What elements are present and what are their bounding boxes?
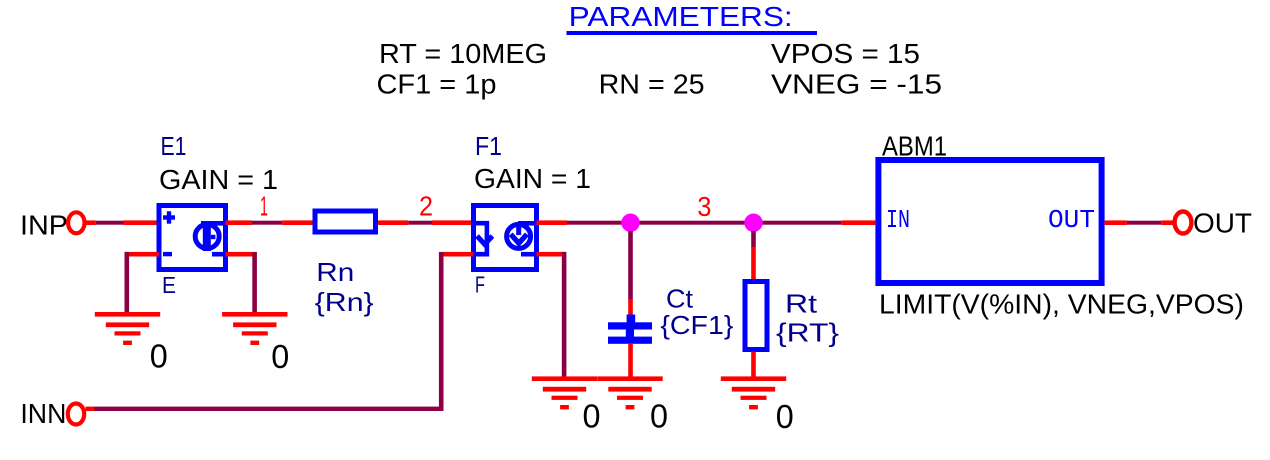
- VCVS E1 box: [159, 206, 226, 270]
- wire node3 to Ct: [628, 231, 633, 300]
- pin stub F1 in+: [432, 220, 471, 225]
- F1 source circle: [507, 224, 531, 248]
- F1 arrow shaft: [516, 223, 521, 235]
- ABM1 expression: [879, 289, 1244, 320]
- param text RT = 10MEG: [379, 38, 547, 69]
- svg-text:VPOS = 15: VPOS = 15: [771, 38, 920, 69]
- wire E1 out- to ground: [252, 252, 257, 314]
- wire INN riser: [439, 252, 444, 411]
- pin stub Rn right: [378, 220, 408, 225]
- svg-text:{CF1}: {CF1}: [660, 310, 733, 340]
- svg-text:RN = 25: RN = 25: [599, 69, 705, 100]
- underline of PARAMETERS: [567, 31, 818, 35]
- ABM1 pin label OUT: [1048, 205, 1095, 235]
- E1 plus sign: [163, 211, 175, 223]
- ground below Ct: [597, 376, 662, 409]
- F1 pin name F: [475, 272, 485, 298]
- resistor Rn label: [316, 257, 354, 287]
- svg-text:OUT: OUT: [1193, 208, 1252, 239]
- svg-text:2: 2: [419, 190, 433, 221]
- pin stub ABM1 in: [842, 220, 876, 225]
- E1 arrow bar: [203, 221, 211, 251]
- E1 label: [161, 131, 187, 161]
- E1 source circle: [195, 224, 219, 248]
- svg-text:0: 0: [650, 397, 668, 434]
- CCCS F1 box: [474, 206, 537, 270]
- pin stub F1 out+: [537, 220, 568, 225]
- param text VNEG = -15: [771, 69, 942, 100]
- wire node 3 mid: [745, 221, 842, 225]
- port label INP: [20, 210, 68, 241]
- resistor Rn value {Rn}: [315, 287, 374, 317]
- E1 gain label: [159, 164, 278, 195]
- svg-text:LIMIT(V(%IN), VNEG,VPOS): LIMIT(V(%IN), VNEG,VPOS): [879, 289, 1244, 320]
- F1 label: [475, 131, 502, 161]
- E1 internal top link: [201, 221, 228, 226]
- svg-text:0: 0: [271, 338, 289, 375]
- wire node 2: [408, 221, 432, 225]
- E1 minus sign: [163, 252, 172, 256]
- capacitor Ct top plate: [608, 322, 652, 329]
- wire F1 out- to ground: [562, 252, 567, 379]
- svg-text:VNEG = -15: VNEG = -15: [771, 69, 942, 100]
- ground 0 label E1 right: [271, 338, 289, 375]
- E1 pin name E: [162, 272, 176, 298]
- resistor Rn body: [315, 211, 376, 232]
- svg-text:Rn: Rn: [316, 257, 354, 287]
- pin stub Rn left: [282, 220, 312, 225]
- ground below F1: [532, 376, 597, 409]
- capacitor Ct bottom plate: [608, 337, 652, 344]
- junction dot node 3 right: [744, 214, 762, 232]
- node 1 label: [260, 191, 268, 222]
- wire node 3 left: [567, 221, 745, 225]
- svg-text:IN: IN: [886, 205, 910, 235]
- svg-text:F: F: [475, 272, 485, 298]
- svg-text:{RT}: {RT}: [776, 318, 839, 348]
- capacitor Ct top lead: [627, 315, 636, 324]
- svg-text:{Rn}: {Rn}: [315, 287, 374, 317]
- capacitor Ct mid stub: [626, 330, 634, 337]
- param text VPOS = 15: [771, 38, 920, 69]
- pin stub Rt top: [751, 247, 756, 280]
- F1 internal top link: [518, 221, 539, 226]
- svg-text:Rt: Rt: [785, 289, 818, 319]
- svg-text:F1: F1: [475, 131, 502, 161]
- svg-text:0: 0: [150, 338, 168, 375]
- ground below E1 left: [95, 312, 160, 345]
- svg-text:0: 0: [776, 398, 794, 435]
- port INP circle: [68, 212, 84, 233]
- node 3 label: [697, 191, 711, 222]
- svg-text:PARAMETERS:: PARAMETERS:: [569, 1, 793, 32]
- pin stub E1 out-: [226, 252, 253, 257]
- pin stub ABM1 out: [1105, 220, 1127, 225]
- svg-text:E: E: [162, 272, 176, 298]
- ground 0 label Ct: [650, 397, 668, 434]
- F1 gain label: [474, 163, 591, 194]
- pin stub INP port: [86, 220, 96, 225]
- resistor Rt label: [785, 289, 818, 319]
- port label INN: [20, 398, 66, 429]
- port INN circle: [68, 404, 84, 425]
- text PARAMETERS heading: [569, 1, 793, 32]
- junction dot node 3 left: [621, 214, 639, 232]
- svg-text:INP: INP: [20, 210, 68, 241]
- param text CF1 = 1p: [377, 69, 497, 100]
- pin stub Rt bottom: [751, 352, 756, 377]
- svg-text:3: 3: [697, 191, 711, 222]
- svg-text:INN: INN: [20, 398, 66, 429]
- wire INP to E1: [96, 221, 124, 225]
- ground 0 label Rt: [776, 398, 794, 435]
- port label OUT: [1193, 208, 1252, 239]
- wire INN horizontal: [94, 407, 443, 411]
- resistor Rt value {RT}: [776, 318, 839, 348]
- ground 0 label F1: [583, 397, 601, 434]
- pin stub OUT port: [1161, 220, 1173, 225]
- node 2 label: [419, 190, 433, 221]
- F1 internal bottom link: [521, 252, 539, 257]
- param text RN = 25: [599, 69, 705, 100]
- capacitor Ct label: [666, 284, 694, 314]
- wire node 1: [252, 221, 282, 225]
- capacitor Ct value {CF1}: [660, 310, 733, 340]
- port OUT circle: [1175, 212, 1192, 234]
- svg-text:1: 1: [260, 191, 268, 222]
- svg-text:OUT: OUT: [1048, 205, 1095, 235]
- svg-text:RT = 10MEG: RT = 10MEG: [379, 38, 547, 69]
- svg-text:0: 0: [583, 397, 601, 434]
- ground below E1 right: [222, 312, 287, 345]
- wire node3 to Rt: [751, 231, 756, 247]
- ground 0 label E1 left: [150, 338, 168, 375]
- F1 arrowhead: [511, 234, 527, 243]
- ABM1 label: [882, 130, 947, 161]
- ground below Rt: [721, 376, 786, 409]
- pin stub Ct top: [628, 299, 633, 315]
- pin stub F1 out-: [537, 252, 566, 257]
- svg-text:E1: E1: [161, 131, 187, 161]
- ABM1 pin label IN: [886, 205, 910, 235]
- svg-text:GAIN = 1: GAIN = 1: [474, 163, 591, 194]
- E1 arrow nub: [211, 235, 216, 239]
- wire ABM1 to OUT port: [1127, 221, 1161, 225]
- svg-text:CF1 = 1p: CF1 = 1p: [377, 69, 497, 100]
- pin stub Ct bottom: [628, 344, 633, 377]
- pin stub E1 out+: [226, 220, 253, 225]
- F1 sense path: [474, 223, 487, 254]
- svg-text:ABM1: ABM1: [882, 130, 947, 161]
- pin stub E1 +in: [124, 220, 157, 225]
- E1 internal bottom link: [212, 252, 228, 257]
- resistor Rt body: [745, 282, 767, 350]
- pin stub INN port: [86, 407, 95, 411]
- wire E1 minus to ground: [125, 252, 130, 314]
- ABM1 box: [878, 160, 1101, 283]
- F1 sense arrowhead: [477, 236, 492, 244]
- pin stub E1 -in: [126, 252, 159, 257]
- pin stub F1 in-: [444, 252, 474, 257]
